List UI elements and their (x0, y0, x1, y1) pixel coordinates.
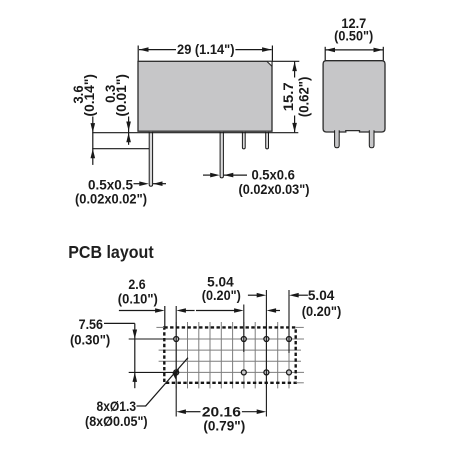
svg-text:(0.50"): (0.50") (334, 28, 373, 44)
svg-text:(0.30"): (0.30") (70, 331, 110, 347)
svg-text:(0.62"): (0.62") (295, 77, 311, 118)
pin 3 (front view, short pin) (242, 132, 245, 149)
PCB outline corner stubs (156, 327, 303, 382)
pad column line 1 (2.6 / 20.16 extension) (175, 306, 177, 417)
svg-text:8xØ1.3: 8xØ1.3 (97, 398, 137, 414)
label 0.5x0.6 (0.02x0.03") with arrows at pin 2 (203, 167, 309, 198)
svg-text:(0.10"): (0.10") (118, 291, 158, 307)
svg-text:7.56: 7.56 (79, 316, 104, 332)
svg-text:(0.20"): (0.20") (202, 287, 241, 303)
pad row reference line top (7.56 dim) (129, 338, 177, 340)
side view pin left (335, 130, 340, 148)
dimension 5.04 (0.20") center (196, 274, 280, 313)
pad column line 4 (5.04 extension) (288, 290, 290, 353)
PCB dashed outline (164, 327, 295, 382)
pad column line 3 (5.04 / 20.16 extension) (265, 290, 267, 417)
pin shoulder line (0.3 ref line A) (92, 132, 298, 134)
dimension 3.6 (0.14") (70, 74, 97, 165)
side view pin right (369, 130, 374, 148)
svg-text:(0.20"): (0.20") (302, 303, 342, 319)
pin 2 (front view, long middle pin) (220, 132, 223, 178)
svg-text:(0.14"): (0.14") (81, 74, 97, 116)
dimension 7.56 (0.30") (70, 316, 137, 388)
svg-text:5.04: 5.04 (308, 287, 335, 303)
pad column line 2 (5.04 extension) (243, 305, 245, 353)
dimension 29 (1.14") with extension lines and arrows (138, 41, 272, 61)
svg-text:(8xØ0.05"): (8xØ0.05") (85, 413, 148, 429)
label 0.5x0.5 (0.02x0.02") with arrows at pin 1 (75, 177, 166, 207)
solder pads underlay (174, 337, 292, 375)
PCB grid vertical lines (176, 322, 289, 388)
label 8xO1.3 holes with leader arrow (85, 358, 188, 429)
svg-text:(0.79"): (0.79") (203, 417, 245, 433)
svg-text:29 (1.14"): 29 (1.14") (177, 41, 235, 57)
relay side view body (323, 61, 385, 132)
dimension 2.6 (0.10") (118, 276, 195, 327)
dimension 20.16 (0.79") (176, 404, 266, 434)
dimension 12.7 (0.50") (325, 15, 383, 61)
pin length ref line B (3.6) (92, 148, 149, 150)
pad row reference line bottom (7.56 dim) (129, 371, 177, 373)
pin 4 (front view, short pin) (266, 132, 269, 149)
dimension 15.7 (0.62") right side (272, 61, 311, 132)
svg-text:15.7: 15.7 (280, 82, 296, 111)
dimension 5.04 (0.20") right (248, 287, 341, 319)
dimension 0.3 (0.01") (102, 74, 131, 145)
pin 1 (front view, long left pin) (149, 132, 152, 186)
svg-text:(0.02x0.03"): (0.02x0.03") (239, 181, 310, 197)
solder pad rings 8x (174, 337, 292, 375)
relay front view body (138, 61, 272, 131)
svg-text:(0.01"): (0.01") (113, 74, 129, 116)
svg-text:(0.02x0.02"): (0.02x0.02") (75, 191, 147, 207)
svg-text:PCB layout: PCB layout (68, 242, 154, 262)
PCB grid horizontal lines (pad rows and middle rows) (159, 339, 304, 372)
